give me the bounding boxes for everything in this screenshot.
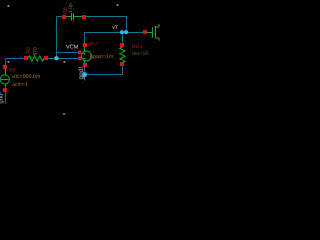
svg-text:vT: vT xyxy=(112,25,118,31)
svg-text:gnd!: gnd! xyxy=(77,67,85,80)
svg-text:R0: R0 xyxy=(26,47,32,54)
svg-text:870: 870 xyxy=(32,47,38,56)
svg-text:gnd!: gnd! xyxy=(0,92,4,103)
svg-text:V0: V0 xyxy=(9,67,16,73)
svg-text:ggain=1m: ggain=1m xyxy=(90,53,113,59)
svg-text:vin+: vin+ xyxy=(88,41,98,47)
svg-text:VCM: VCM xyxy=(66,44,78,50)
svg-text:1.0p: 1.0p xyxy=(68,3,74,13)
svg-text:acm=1: acm=1 xyxy=(12,81,28,87)
svg-text:R0/1: R0/1 xyxy=(132,44,143,50)
svg-text:vdc=900.0m: vdc=900.0m xyxy=(12,73,41,79)
svg-text:res=1K: res=1K xyxy=(132,50,149,56)
